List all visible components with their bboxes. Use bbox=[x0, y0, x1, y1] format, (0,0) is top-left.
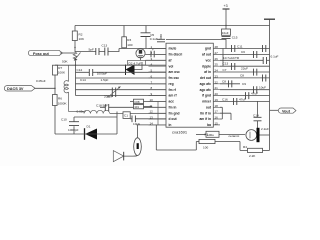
pins right stubs bbox=[213, 49, 220, 125]
wire from DACS bbox=[35, 87, 56, 89]
node Fosc out port bbox=[28, 50, 62, 56]
svg-text:C16: C16 bbox=[222, 97, 228, 101]
capacitor C13 bbox=[102, 44, 120, 56]
capacitor C14 1.5pF row6 bbox=[76, 78, 167, 82]
svg-text:fm discri: fm discri bbox=[169, 53, 183, 57]
svg-text:mixer: mixer bbox=[202, 100, 212, 104]
speaker triangle bbox=[113, 151, 137, 162]
node +3 supply bbox=[222, 4, 238, 49]
svg-text:24: 24 bbox=[215, 69, 219, 73]
svg-text:C11: C11 bbox=[237, 45, 243, 49]
svg-text:18: 18 bbox=[215, 104, 219, 108]
wire row 17 bbox=[220, 113, 231, 120]
transistor Q2 bbox=[246, 130, 257, 141]
wire top rail bbox=[75, 25, 270, 27]
capacitor C14b bbox=[253, 101, 262, 128]
svg-text:Fosc out: Fosc out bbox=[33, 52, 50, 56]
svg-text:12: 12 bbox=[150, 110, 154, 114]
svg-text:R1: R1 bbox=[205, 132, 209, 136]
svg-text:C1: C1 bbox=[124, 114, 128, 118]
svg-text:23: 23 bbox=[215, 74, 219, 78]
wire left vertical from rail bbox=[74, 26, 76, 32]
svg-text:11: 11 bbox=[150, 104, 153, 108]
resistor R4 2.2K bbox=[243, 110, 270, 158]
svg-text:R7: R7 bbox=[58, 66, 62, 70]
svg-text:am if in: am if in bbox=[199, 117, 211, 121]
capacitor C+ row2 bbox=[145, 47, 166, 57]
svg-text:5pF: 5pF bbox=[89, 48, 94, 52]
svg-text:101: 101 bbox=[134, 105, 139, 109]
svg-text:1000pF: 1000pF bbox=[68, 128, 79, 132]
svg-text:fm gnd: fm gnd bbox=[169, 111, 180, 115]
svg-text:am osc: am osc bbox=[169, 70, 181, 74]
capacitor C18 5pF row11 bbox=[96, 104, 166, 112]
svg-text:22uF: 22uF bbox=[241, 67, 248, 71]
svg-text:14: 14 bbox=[150, 121, 154, 125]
IC U1 cxa1691 bbox=[166, 43, 213, 134]
svg-text:10uF: 10uF bbox=[133, 122, 140, 126]
svg-text:2.2K: 2.2K bbox=[249, 154, 256, 158]
wire row 23 bbox=[220, 74, 270, 82]
svg-text:10: 10 bbox=[150, 98, 154, 102]
svg-text:0.1uF: 0.1uF bbox=[271, 55, 279, 59]
pin numbers right bbox=[215, 45, 219, 125]
svg-text:20: 20 bbox=[215, 92, 219, 96]
resistor R6 1000K bbox=[53, 95, 58, 106]
wire row 24 bbox=[220, 68, 270, 76]
svg-text:R4: R4 bbox=[243, 145, 247, 149]
wire right bus bbox=[269, 26, 271, 111]
svg-text:47uF: 47uF bbox=[239, 97, 246, 101]
svg-text:50K: 50K bbox=[62, 60, 68, 64]
wire row 28 bbox=[220, 45, 270, 53]
capacitor C4 above IC bbox=[157, 34, 226, 42]
svg-text:C12: C12 bbox=[77, 68, 83, 72]
wire row 27 capacitor C6 bbox=[220, 50, 270, 58]
wire row8 bbox=[76, 89, 167, 91]
wire row 20 bbox=[220, 92, 270, 100]
svg-text:fm osc: fm osc bbox=[169, 76, 180, 80]
svg-text:vol: vol bbox=[169, 64, 174, 68]
svg-text:cxa1691: cxa1691 bbox=[172, 130, 188, 135]
svg-text:Vout: Vout bbox=[282, 109, 291, 113]
svg-text:100K: 100K bbox=[58, 71, 66, 75]
wire R6 bottom to rail bbox=[54, 88, 56, 134]
svg-text:+3: +3 bbox=[224, 4, 228, 8]
pin numbers left bbox=[150, 45, 154, 125]
svg-text:13: 13 bbox=[150, 116, 154, 120]
svg-text:1.5pF: 1.5pF bbox=[101, 78, 109, 82]
svg-text:C10: C10 bbox=[61, 118, 67, 122]
svg-text:C8: C8 bbox=[222, 80, 226, 84]
svg-text:if gnd: if gnd bbox=[202, 94, 211, 98]
wire row4 bbox=[55, 64, 166, 66]
diode D1 bbox=[85, 125, 98, 140]
resistor R7 bbox=[53, 65, 58, 75]
svg-text:19: 19 bbox=[215, 98, 219, 102]
svg-text:af out: af out bbox=[202, 53, 212, 57]
svg-text:gnd: gnd bbox=[205, 47, 211, 51]
wire terminal drop bbox=[269, 19, 271, 25]
component box C17 row13 bbox=[123, 112, 166, 126]
wire row9 bbox=[76, 95, 167, 97]
svg-text:fm if in: fm if in bbox=[200, 111, 211, 115]
svg-text:28: 28 bbox=[215, 45, 219, 49]
component box ceramic bbox=[196, 131, 245, 138]
filter row 26 bbox=[220, 55, 279, 65]
capacitor C10 bbox=[61, 117, 117, 134]
node DACS 3V port bbox=[4, 86, 35, 92]
wire row14 bbox=[137, 124, 167, 126]
svg-text:100: 100 bbox=[203, 145, 208, 149]
wire row 18 bbox=[220, 107, 222, 119]
wire row7 bbox=[76, 83, 167, 85]
svg-text:D1: D1 bbox=[87, 125, 91, 129]
svg-text:fm in: fm in bbox=[169, 105, 177, 109]
svg-text:27: 27 bbox=[215, 51, 219, 55]
svg-text:C13: C13 bbox=[102, 44, 108, 48]
svg-text:C15: C15 bbox=[232, 36, 238, 40]
svg-text:reg: reg bbox=[169, 82, 174, 86]
svg-text:100: 100 bbox=[127, 43, 132, 47]
IC pin rows bbox=[149, 49, 221, 125]
capacitor C5 0.1uF bbox=[141, 26, 161, 49]
capacitor 5pF bbox=[75, 48, 103, 56]
wire bottom left rail bbox=[55, 112, 117, 135]
svg-text:C7: C7 bbox=[223, 68, 227, 72]
crystal Q1 bbox=[136, 49, 145, 61]
svg-text:26: 26 bbox=[215, 57, 219, 61]
wire row1 to IC bbox=[119, 48, 166, 50]
svg-text:25: 25 bbox=[215, 63, 219, 67]
pins left stubs bbox=[149, 49, 167, 125]
svg-text:1000K: 1000K bbox=[58, 102, 68, 106]
wire row 25 capacitor C13b bbox=[220, 62, 270, 71]
wire right bus stub bbox=[222, 49, 224, 67]
wire jog to R4 bbox=[240, 142, 248, 151]
wire vout feed bbox=[270, 109, 279, 111]
IC pin labels bbox=[169, 47, 183, 127]
svg-text:16: 16 bbox=[215, 116, 219, 120]
svg-text:out: out bbox=[206, 105, 212, 109]
svg-text:+: + bbox=[152, 47, 154, 51]
variable capacitor 200pF bbox=[104, 87, 121, 99]
svg-text:DACS 3V: DACS 3V bbox=[7, 87, 24, 91]
capacitor C15 10uF bbox=[225, 26, 227, 30]
capacitor C12 1000pF row5 bbox=[76, 68, 167, 76]
svg-text:ba: ba bbox=[207, 123, 211, 127]
svg-text:R6: R6 bbox=[58, 97, 62, 101]
svg-text:fm rf: fm rf bbox=[169, 88, 177, 92]
svg-text:10K: 10K bbox=[79, 37, 85, 41]
svg-text:in: in bbox=[169, 123, 172, 127]
resistor R3 100 bbox=[122, 37, 127, 48]
inductor L1 vertical coil bbox=[64, 65, 69, 111]
svg-text:10uF: 10uF bbox=[222, 31, 229, 35]
svg-text:10.7uACTR: 10.7uACTR bbox=[223, 56, 240, 60]
svg-text:17: 17 bbox=[215, 110, 219, 114]
svg-text:am rf: am rf bbox=[169, 94, 178, 98]
svg-text:agc afc: agc afc bbox=[200, 88, 212, 92]
svg-text:acc: acc bbox=[169, 100, 175, 104]
wire bbox=[123, 26, 125, 49]
wire from Fosc out bbox=[60, 52, 75, 54]
svg-text:1000pF: 1000pF bbox=[97, 72, 108, 76]
resistor R1 100 bbox=[196, 132, 240, 149]
wire IC bottom left loop bbox=[156, 125, 196, 150]
svg-text:10uF: 10uF bbox=[259, 86, 266, 90]
node +B terminal bar bbox=[264, 18, 275, 20]
capacitor electrolytic black bbox=[258, 127, 270, 142]
filter box row10 bbox=[130, 99, 166, 104]
diode D2 bbox=[126, 60, 167, 75]
wire row 19 capacitor C16 bbox=[220, 97, 270, 105]
svg-text:agc afc: agc afc bbox=[200, 82, 212, 86]
svg-text:mute: mute bbox=[169, 47, 177, 51]
svg-text:ripple: ripple bbox=[202, 64, 211, 68]
svg-text:21: 21 bbox=[215, 86, 219, 90]
svg-text:47uF: 47uF bbox=[251, 92, 258, 96]
potentiometer 50K bbox=[62, 52, 81, 64]
wire bbox=[75, 61, 77, 96]
svg-text:0.05uF: 0.05uF bbox=[36, 79, 46, 83]
svg-text:af in: af in bbox=[204, 70, 211, 74]
filter box row11b bbox=[134, 104, 153, 109]
svg-text:C6: C6 bbox=[241, 50, 245, 54]
wire bbox=[74, 41, 76, 53]
svg-text:C8: C8 bbox=[240, 74, 244, 78]
svg-text:200pF: 200pF bbox=[104, 95, 113, 99]
wire row 22 bbox=[220, 80, 246, 88]
resistor R2 bbox=[72, 31, 77, 41]
svg-text:R3: R3 bbox=[127, 38, 131, 42]
svg-text:0.05uF: 0.05uF bbox=[77, 110, 87, 114]
svg-text:det out: det out bbox=[200, 76, 212, 80]
inductor L2 horizontal coil bbox=[69, 110, 167, 114]
svg-text:15: 15 bbox=[215, 121, 219, 125]
wire row 21 bbox=[220, 86, 270, 94]
node Vout port bbox=[278, 108, 296, 113]
svg-text:C9: C9 bbox=[242, 82, 246, 86]
svg-text:C08: C08 bbox=[134, 100, 140, 104]
wire R7 bottom bbox=[54, 75, 56, 88]
svg-text:d out: d out bbox=[169, 117, 178, 121]
svg-text:C18 5pF: C18 5pF bbox=[96, 104, 108, 108]
svg-text:C13: C13 bbox=[223, 62, 229, 66]
svg-text:2.2uF: 2.2uF bbox=[261, 127, 269, 131]
microphone M1 bbox=[134, 125, 142, 156]
svg-text:vcc: vcc bbox=[205, 58, 211, 62]
svg-text:22: 22 bbox=[215, 80, 219, 84]
svg-text:C14: C14 bbox=[80, 78, 86, 82]
